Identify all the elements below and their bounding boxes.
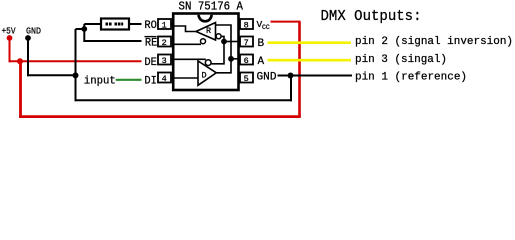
svg-text:DE: DE bbox=[144, 57, 157, 69]
svg-text:B: B bbox=[258, 38, 265, 50]
wire B yellow bbox=[268, 41, 352, 44]
node junction dot resistor bbox=[81, 26, 87, 32]
svg-text:DMX Outputs:: DMX Outputs: bbox=[321, 9, 422, 25]
svg-text:R: R bbox=[206, 26, 211, 36]
wire B net internal bbox=[211, 36, 224, 63]
pin 3 box bbox=[158, 55, 174, 66]
wire RE row bbox=[84, 40, 141, 42]
svg-text:input: input bbox=[84, 76, 116, 88]
svg-text:RO: RO bbox=[144, 20, 157, 32]
svg-text:8: 8 bbox=[244, 20, 249, 30]
wire +5V red net bbox=[9, 22, 301, 117]
node junction dot A bbox=[228, 56, 234, 62]
svg-text:SN 75176 A: SN 75176 A bbox=[179, 0, 244, 13]
pin 4 box bbox=[158, 73, 174, 84]
svg-text:3: 3 bbox=[162, 56, 167, 66]
node GND terminal dot bbox=[25, 35, 31, 41]
chip notch bbox=[199, 15, 212, 22]
wire RE internal bbox=[175, 43, 202, 45]
svg-text:pin 3 (singal): pin 3 (singal) bbox=[355, 54, 447, 66]
resistor R1 bbox=[84, 19, 141, 30]
wire input green bbox=[116, 79, 142, 81]
svg-text:CC: CC bbox=[262, 24, 270, 31]
node junction dot gnd right bbox=[288, 73, 294, 79]
svg-text:pin 2 (signal inversion): pin 2 (signal inversion) bbox=[355, 36, 513, 48]
receiver triangle R bbox=[196, 23, 216, 41]
wire GND black net bbox=[27, 24, 352, 101]
svg-text:+5V: +5V bbox=[2, 27, 17, 37]
pin 1 box bbox=[158, 19, 174, 30]
svg-text:A: A bbox=[258, 56, 265, 68]
svg-text:2: 2 bbox=[162, 38, 167, 48]
svg-text:D: D bbox=[202, 70, 207, 80]
wire A yellow bbox=[268, 59, 352, 62]
driver inverting bubble bbox=[205, 60, 211, 66]
pin 8 box bbox=[238, 19, 254, 30]
node +5V terminal dot bbox=[7, 35, 13, 41]
pin 2 box bbox=[158, 37, 174, 48]
pin 5 box bbox=[238, 73, 254, 84]
wire RO internal bbox=[175, 26, 197, 32]
svg-text:7: 7 bbox=[244, 38, 249, 48]
wire DE internal bbox=[175, 58, 206, 60]
svg-text:6: 6 bbox=[244, 56, 249, 66]
receiver enable bubble bbox=[201, 39, 206, 44]
svg-text:GND: GND bbox=[26, 27, 41, 37]
wire DI internal bbox=[175, 77, 199, 79]
wire A net internal bbox=[216, 25, 232, 59]
node red junction dot bbox=[17, 58, 23, 64]
svg-text:4: 4 bbox=[162, 74, 167, 84]
pin 6 box bbox=[238, 55, 254, 66]
svg-text:5: 5 bbox=[244, 74, 249, 84]
svg-text:RE: RE bbox=[145, 38, 158, 50]
svg-text:pin 1 (reference): pin 1 (reference) bbox=[355, 72, 467, 84]
svg-text:1: 1 bbox=[162, 20, 167, 30]
receiver B input bubble bbox=[216, 34, 221, 39]
svg-text:GND: GND bbox=[257, 72, 277, 84]
pin 7 box bbox=[238, 37, 254, 48]
driver triangle D bbox=[198, 61, 216, 85]
node junction dot left bbox=[73, 72, 79, 78]
svg-text:DI: DI bbox=[144, 76, 157, 88]
node junction dot B bbox=[221, 39, 227, 45]
